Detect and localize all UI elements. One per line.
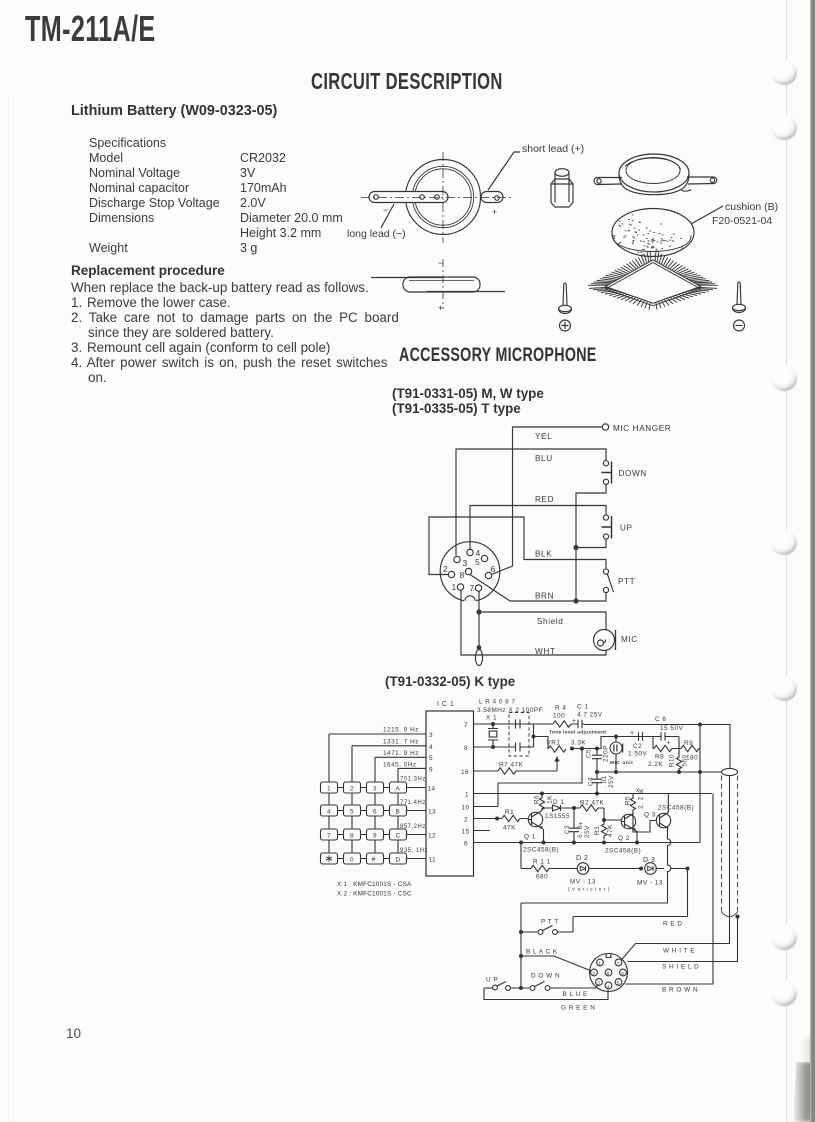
svg-text:3: 3 [429,732,433,739]
specifications table [89,136,166,151]
cable (shielded) [722,768,738,919]
wire PTT riser [572,917,574,933]
wire DOWN to bus [576,484,606,601]
svg-text:#: # [372,857,376,864]
svg-text:1: 1 [327,786,331,793]
svg-text:K: K [639,788,646,793]
connector pin 1 [597,959,604,966]
wire col2 [351,746,353,853]
svg-text:R 1 1: R 1 1 [533,859,551,866]
wire Q3 collector to pin1 rail [667,794,669,813]
keypad key B [390,805,407,816]
svg-text:+: + [667,740,672,747]
long lead (-) strip [369,192,448,216]
connector body (8-pin) [440,542,500,605]
svg-text:935. 1Hz: 935. 1Hz [400,848,428,854]
svg-text:R6: R6 [534,795,541,804]
wire UP to bus [576,539,606,547]
connector pin 2 [591,969,598,976]
keypad key 4 [321,805,338,816]
battery center lines (dash-dot) [361,152,514,243]
battery side view [371,258,505,313]
title TM-211A/E [25,8,156,50]
svg-text:1215. 9 Hz: 1215. 9 Hz [383,727,419,734]
svg-text:6: 6 [373,809,377,816]
junction pin8/X1 [491,745,495,749]
keypad key 9 [367,829,384,840]
heading Lithium Battery [71,103,277,120]
junction PTT left [519,930,523,934]
svg-text:1: 1 [598,961,601,966]
junction shield [477,610,481,614]
junction UP/bus [574,546,578,550]
capacitor C2 [628,730,653,758]
svg-text:I C 1: I C 1 [437,701,454,708]
svg-text:+: + [579,821,584,828]
svg-text:2: 2 [350,786,354,793]
faint left page fold line [8,96,9,1122]
svg-text:2SC458(B): 2SC458(B) [658,805,694,812]
svg-text:4: 4 [327,809,331,816]
svg-text:Q 3: Q 3 [644,812,656,819]
junction pin7/X1 [491,722,495,726]
junction D2/D3 [639,867,643,871]
wire WHT [461,590,606,657]
switch PTT [521,919,573,935]
heading Replacement procedure [71,263,225,279]
connector pin 8 [605,969,612,976]
capacitor C3 [564,808,591,843]
svg-text:1: 1 [465,792,469,799]
junction x700/rail2 [698,770,702,774]
screw right [733,282,746,313]
screw left [559,283,572,314]
keypad key 5 [344,805,361,816]
keypad key 2 [344,782,361,793]
IC U1 (IC1) [426,701,474,876]
keypad key # [367,853,384,864]
svg-text:3.3K: 3.3K [571,740,586,747]
switch PTT [603,569,635,593]
resistor R3 [594,808,614,840]
label long lead (-) with leader [347,204,406,240]
wire BLU [456,449,606,556]
wire YEL [492,427,603,575]
svg-text:15 50V: 15 50V [660,725,683,732]
svg-text:25V: 25V [584,825,591,838]
wire pin10 [474,806,499,808]
plus mark [560,320,571,331]
resistor R11 [521,859,578,881]
svg-text:4: 4 [607,984,610,989]
junction pin2 [495,817,499,821]
svg-text:560: 560 [682,754,689,766]
wire tap C5/VR1 to pin10 [498,749,582,807]
heading ACCESSORY MICROPHONE [399,345,597,367]
svg-text:R E D: R E D [663,921,683,928]
wire col4 [397,768,399,853]
connector body K [590,954,628,992]
subheading M,W type [392,386,544,402]
battery top view: cell outline [406,160,481,235]
keypad key D [390,853,407,864]
junction top rail x700 [698,723,702,727]
wire WHITE [622,919,730,960]
connector pin 4 [605,982,612,989]
svg-text:1 50V: 1 50V [628,751,647,758]
svg-text:0: 0 [350,857,354,864]
svg-text:B L A C K: B L A C K [526,949,558,956]
svg-text:C4: C4 [588,777,595,786]
wire switch bus [520,903,522,988]
wire R2R3 to Q2 base [604,819,621,821]
varistor D3 [637,857,688,887]
svg-text:11: 11 [429,857,437,864]
junction C5 top [595,747,599,751]
svg-text:R8: R8 [655,754,664,761]
svg-text:. 01: . 01 [601,775,608,788]
svg-text:Q 1: Q 1 [524,834,536,841]
keypad key 1 [321,782,338,793]
wire pin7 to shield [478,591,480,612]
wire Shield [479,612,606,630]
svg-text:MV - 13: MV - 13 [637,880,663,887]
diode D1 [542,799,574,820]
junction bus/updown [519,986,523,990]
svg-text:1331. 7 Hz: 1331. 7 Hz [383,739,419,746]
svg-text:D 1: D 1 [553,799,564,806]
microphone MIC [594,630,638,651]
keypad key C [390,829,407,840]
svg-text:C5: C5 [586,749,593,758]
wire keyC to pin12 [407,834,427,836]
capacitor C4 [588,772,616,794]
resistor R7 [474,762,558,775]
capacitor C1 [571,704,603,729]
junction C3 bottom [572,841,576,845]
svg-text:12: 12 [428,833,436,840]
svg-text:14: 14 [428,786,436,793]
svg-text:D O W N: D O W N [531,973,560,980]
connector pin 7 [615,959,622,966]
wire keypad row links [338,788,390,859]
cable end below shield junction [475,612,482,666]
svg-text:2: 2 [464,817,468,824]
svg-text:R7 47K: R7 47K [499,762,524,769]
wire pin8 row [474,746,510,748]
svg-text:R5: R5 [625,796,632,805]
svg-text:Tone level adjustment: Tone level adjustment [549,730,606,736]
svg-text:2.2K: 2.2K [648,761,663,768]
svg-text:6: 6 [464,841,468,848]
svg-text:16: 16 [461,769,469,776]
transistor Q2 [605,813,641,854]
terminal MIC HANGER [602,424,671,433]
svg-text:X 1: X 1 [486,715,497,722]
wire SHIELD [628,917,738,971]
svg-text:9: 9 [373,833,377,840]
keypad key A [390,782,407,793]
svg-text:C2: C2 [633,743,642,750]
wire R9 to x700 [699,725,700,843]
wire RED [573,917,688,928]
junction mic top [614,735,618,739]
svg-text:1S1555: 1S1555 [545,813,570,820]
svg-text:220P: 220P [603,745,610,762]
microphone unit MIC [610,737,633,773]
resistor R5 [625,787,646,813]
wire pin15 stub [474,830,491,832]
wire col1 [328,734,330,853]
svg-text:4.7 25V: 4.7 25V [577,712,603,719]
keypad key 8 [344,829,361,840]
svg-text:B R O W N: B R O W N [662,987,698,994]
junction R6 top [540,792,544,796]
crystal X1 [486,715,498,748]
svg-text:C3: C3 [564,825,571,834]
svg-text:1645. 0Hz: 1645. 0Hz [383,761,417,768]
svg-text:771.4Hz: 771.4Hz [400,800,426,806]
svg-text:( V a r i s t e r ): ( V a r i s t e r ) [568,887,610,893]
svg-text:7: 7 [464,722,468,729]
junction R3 bottom [602,841,606,845]
junction BLACK [519,954,523,958]
svg-text:C: C [396,833,401,840]
scan artifact: faint page-edge line [786,0,787,1122]
wire D3 down to RED [687,869,689,917]
svg-text:VR1: VR1 [547,740,561,747]
junction Q2 emitter [636,831,638,843]
svg-text:857.2Hz: 857.2Hz [400,824,426,830]
svg-text:D 3: D 3 [643,857,655,864]
battery with tabs (3d) [594,154,717,195]
connector pin 5 [615,979,622,986]
resistor R8 [648,737,679,769]
svg-text:2: 2 [592,971,595,976]
svg-text:7: 7 [327,833,331,840]
svg-text:X 2 : KMFC1001S - CSC: X 2 : KMFC1001S - CSC [337,891,412,898]
svg-text:C 1: C 1 [577,704,588,711]
svg-text:8: 8 [464,745,468,752]
svg-text:+: + [572,718,577,725]
svg-text:8: 8 [607,971,610,976]
wire X2 out / junction [529,724,553,747]
svg-text:8: 8 [350,833,354,840]
terminal cube [551,169,573,207]
resistor R10 [669,749,689,772]
varistor D2 [568,855,641,893]
svg-text:D: D [396,857,401,864]
svg-text:W H I T E: W H I T E [663,948,695,955]
junction C4/pin1 rail [595,792,599,796]
svg-text:U P: U P [486,977,498,984]
svg-text:R 4: R 4 [555,705,566,712]
wire GREEN [484,988,608,1012]
label cushion (B) / F20-0521-04 with leader [691,201,778,227]
label short lead (+) with leader [488,143,584,190]
potentiometer VR1 [534,737,587,772]
svg-text:13: 13 [428,809,436,816]
resistor R1 [502,809,528,832]
svg-text:MV - 13: MV - 13 [570,879,596,886]
junction tap [580,747,584,751]
svg-text:R3: R3 [594,826,601,835]
junction R2/R3 [602,818,606,822]
wire top rail to cable [584,725,730,769]
svg-text:X 1 : KMFC1001S - CSA: X 1 : KMFC1001S - CSA [337,881,412,888]
svg-text:47K: 47K [607,824,614,837]
svg-text:S H I E L D: S H I E L D [662,964,699,971]
svg-text:R9: R9 [684,740,693,747]
svg-text:B L U E: B L U E [563,991,588,998]
wire pin7 / top row [474,723,554,725]
svg-text:1471. 9 Hz: 1471. 9 Hz [383,750,419,757]
svg-text:5: 5 [429,755,433,762]
keypad key 3 [367,782,384,793]
scan artifact: binder hole crescents [771,60,797,85]
svg-text:680: 680 [536,874,548,881]
svg-text:9: 9 [429,767,433,774]
wire BLK [429,517,606,575]
connector pins [443,548,496,593]
svg-text:47K: 47K [503,825,516,832]
wire to R11 row [520,843,522,869]
switch UP [602,515,633,539]
wire pin4 row [352,745,426,747]
svg-text:Q 2: Q 2 [618,835,630,842]
transistor Q1 [523,811,559,854]
junction D1/C3 [572,806,576,810]
keypad key 0 [344,853,361,864]
wire keyB to pin13 [407,810,427,812]
transistor Q3 [644,805,694,829]
wire BROWN [625,794,713,994]
page number [66,1026,81,1042]
svg-text:15: 15 [462,829,470,836]
IC package (QFP, perspective) [588,251,718,310]
junction shield/cable [736,915,740,919]
svg-text:3: 3 [373,786,377,793]
wire pin9 row [398,767,426,769]
svg-text:C 6: C 6 [655,716,666,723]
svg-text:7: 7 [617,961,620,966]
short lead (+) strip [481,192,503,218]
svg-text:100: 100 [553,713,565,720]
wire BRN [470,575,606,602]
svg-text:B: B [396,809,401,816]
svg-text:5: 5 [617,981,620,986]
svg-text:5: 5 [350,809,354,816]
wire Q2 collector to Q3 base [633,813,656,832]
svg-text:2. 2: 2. 2 [638,796,645,809]
wire RED [470,495,606,550]
wire keyA to pin14 [407,787,427,789]
svg-text:2SC458(B): 2SC458(B) [605,848,641,855]
svg-text:4: 4 [429,744,433,751]
svg-text:25V: 25V [608,775,615,788]
switch UP [484,977,530,991]
connector pin 6 [620,969,627,976]
capacitor C5 [586,745,610,772]
junction BRN/bus [574,599,578,603]
keypad key * [321,853,338,864]
switch DOWN [602,461,647,485]
junction mic bottom [614,770,618,774]
wire VR1 out to mic rail [572,737,654,749]
keypad key 7 [321,829,338,840]
wire BLACK [521,949,592,972]
svg-text:D 2: D 2 [576,855,588,862]
svg-text:R2 47K: R2 47K [580,800,605,807]
junction C5/rail2 [595,770,599,774]
junction rail x521 [519,841,523,845]
resistor R2 [574,800,605,812]
heading CIRCUIT DESCRIPTION [311,68,503,96]
keypad key 6 [367,805,384,816]
svg-text:3: 3 [597,981,600,986]
junction VR1 out [570,747,574,751]
junction D3 right [686,867,690,871]
cushion (B) disc [612,209,694,257]
wire pin5 row [375,756,426,758]
svg-text:701.3Hz: 701.3Hz [400,777,426,783]
svg-text:2SC458(B): 2SC458(B) [523,847,559,854]
resistor R4 [553,705,571,728]
svg-text:L R 4 0 8 7: L R 4 0 8 7 [479,699,516,706]
wire pin1 rail [474,793,713,795]
wire pin2 row [474,818,503,820]
wire Q3 emitter down with hops [521,828,671,903]
svg-text:10: 10 [462,805,470,812]
svg-text:R10: R10 [669,754,676,767]
subheading K type [385,674,515,690]
wire keyD to pin11 [407,858,427,860]
svg-text:P T T: P T T [541,919,559,926]
svg-text:R1: R1 [505,809,514,816]
crystal unit X2 (dashed box with two caps) [509,713,529,757]
minus mark [734,320,745,331]
wire pin6 rail [474,842,701,844]
resistor R6 [534,794,554,811]
svg-text:6: 6 [621,971,624,976]
resistor R9 [679,737,699,762]
svg-text:MIC unit: MIC unit [610,760,633,766]
capacitor C6 [653,716,683,747]
scan artifact: bottom-right page curl shadow [793,1062,815,1122]
connector pin 3 [596,979,603,986]
svg-text:G R E E N: G R E E N [561,1005,595,1012]
scan artifact: right edge shadow strip [810,0,815,1122]
junction Q1 emitter [543,829,545,843]
svg-text:+: + [630,730,635,737]
wire col3 [374,757,376,853]
wire rail2 [597,771,722,773]
svg-text:A: A [396,786,401,793]
switch DOWN [530,973,598,991]
junction R10/rail2 [677,770,681,774]
wire pin3 row [329,733,426,735]
